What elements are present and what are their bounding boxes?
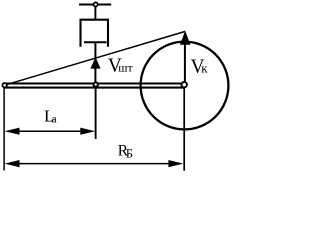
left extension line [3,88,5,171]
wheel center node [182,82,187,87]
L_a dimension line [16,130,84,132]
piston rod wire [94,42,96,85]
V_sht arrow head [90,57,100,69]
left pivot node [2,83,6,87]
diagonal velocity line [5,31,186,85]
R_B left arrow head [5,160,20,167]
damper piston [84,41,107,43]
svg-text:а: а [51,111,57,125]
R_B dimension line [16,163,172,165]
V_k arrow shaft [184,33,186,85]
lever top line [5,82,185,84]
damper cylinder [81,20,109,47]
lever bottom line [5,87,185,89]
svg-text:Б: Б [126,146,133,160]
fixed support rail [79,3,111,5]
support pivot circle [94,2,98,6]
middle node [94,82,98,86]
wheel vertical axis line [183,86,185,171]
wheel circle [141,42,229,130]
L_a right arrow head [80,128,95,135]
R_B right arrow head [168,160,183,167]
svg-text:к: к [201,61,208,76]
svg-text:шт: шт [118,61,133,75]
L_a extension line [95,88,97,140]
V_k arrow head [180,31,191,45]
support rod wire [94,7,96,21]
L_a left arrow head [5,128,20,135]
